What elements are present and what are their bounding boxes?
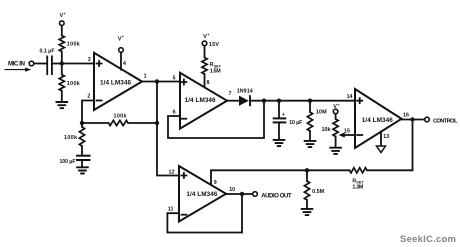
svg-text:2: 2 — [87, 94, 90, 100]
resistor R6 10M — [307, 112, 312, 131]
svg-text:+: + — [337, 102, 340, 107]
ground (pot) — [329, 148, 342, 154]
wire R7 to ground — [335, 137, 337, 148]
svg-text:100k: 100k — [64, 135, 77, 141]
wire R3 to C2 — [81, 146, 83, 155]
svg-text:MIC IN: MIC IN — [8, 61, 26, 68]
wire C3 to ground — [278, 123, 280, 139]
CONTROL terminal — [425, 117, 430, 122]
svg-text:8: 8 — [207, 80, 210, 86]
resistor R2 100k — [59, 75, 64, 91]
wire node B to R3 — [81, 123, 83, 127]
capacitor C2 100uF — [76, 155, 91, 157]
op-amp U2 1/4 LM346 — [180, 73, 227, 129]
wire node C down to U3 pin12 — [157, 82, 179, 176]
wire U3 output to AUDIO OUT — [226, 193, 253, 195]
wire R5 to U2 pin8 — [204, 74, 206, 88]
wire R2 to ground — [61, 91, 63, 102]
potentiometer R7 10k — [333, 119, 338, 137]
wire V+ to R1 — [61, 26, 63, 36]
wire node E to C3 — [278, 101, 280, 118]
wire C2 to ground — [81, 161, 83, 167]
node B junction (pin2 net) — [80, 121, 84, 125]
node D junction (after diode) — [262, 99, 266, 103]
ground (C3) — [273, 140, 286, 146]
svg-text:15V: 15V — [209, 42, 219, 48]
svg-text:13: 13 — [383, 134, 389, 140]
wire U4 output to CONTROL — [402, 119, 425, 121]
node E junction (C3 tap) — [277, 99, 281, 103]
svg-text:+: + — [122, 34, 125, 39]
svg-text:1/4 LM346: 1/4 LM346 — [185, 97, 216, 104]
resistor R4 100k feedback — [109, 120, 129, 125]
op-amp U3 1/4 LM346 — [179, 166, 226, 222]
svg-text:3: 3 — [88, 57, 91, 63]
wire U1 pin2 stub — [82, 101, 94, 124]
MIC IN terminal — [29, 61, 34, 66]
svg-text:1N914: 1N914 — [237, 88, 253, 94]
svg-text:12: 12 — [169, 170, 175, 176]
wire R1 to node A — [61, 52, 63, 64]
wire V+ to R7 — [335, 114, 337, 119]
svg-text:10 μF: 10 μF — [289, 120, 302, 126]
svg-text:14: 14 — [347, 94, 353, 100]
svg-text:0.1 μF: 0.1 μF — [40, 49, 55, 55]
svg-text:1/4 LM346: 1/4 LM346 — [186, 191, 217, 198]
wire terminal to C1 — [34, 63, 46, 65]
wire U3 feedback loop to pin11 — [167, 194, 242, 233]
node C junction (U1 out) — [155, 79, 159, 83]
wire U4 pin13 to ground arrow — [380, 132, 382, 146]
svg-text:6: 6 — [173, 109, 176, 115]
wire U2 output to D1 — [227, 100, 239, 102]
svg-text:11: 11 — [168, 206, 174, 212]
svg-text:100k: 100k — [114, 113, 127, 119]
node H junction (0.5M tap) — [305, 168, 309, 172]
wire 15V to R5 — [204, 46, 206, 58]
svg-text:7: 7 — [229, 91, 232, 97]
wire U2 pin6 feedback loop — [168, 101, 264, 138]
svg-text:100 μF: 100 μF — [60, 159, 76, 165]
wire node F to R6 — [309, 101, 311, 112]
op-amp U1 1/4 LM346 — [94, 53, 142, 110]
svg-text:10k: 10k — [322, 127, 331, 133]
node A junction — [60, 61, 64, 65]
AUDIO OUT terminal — [253, 192, 258, 197]
svg-text:1/4 LM346: 1/4 LM346 — [100, 79, 131, 86]
resistor R8 0.5M — [304, 181, 309, 200]
node F junction (R6 tap) — [308, 99, 312, 103]
svg-text:+: + — [63, 11, 66, 16]
wire C1 to node A — [53, 63, 94, 65]
pot wiper arrow to U4 pin15 — [344, 134, 355, 136]
svg-text:CONTROL: CONTROL — [433, 118, 458, 124]
MIC IN arrow — [5, 69, 27, 71]
op-amp U4 1/4 LM346 — [355, 89, 402, 148]
svg-text:0.5M: 0.5M — [312, 189, 325, 195]
svg-text:10M: 10M — [316, 109, 327, 115]
wire D1 to U4 pin14 — [250, 100, 355, 102]
wire U1 output to U2 pin5 — [142, 81, 180, 83]
svg-text:9: 9 — [214, 180, 217, 186]
svg-text:+: + — [282, 112, 285, 118]
svg-text:16: 16 — [403, 113, 409, 119]
wire node B to R4 — [82, 122, 109, 124]
wire node H to R8 — [306, 170, 308, 181]
resistor R3 100k — [79, 127, 84, 146]
svg-text:4: 4 — [123, 61, 126, 67]
diode D1 1N914 — [239, 96, 249, 106]
svg-text:SeekIC.com: SeekIC.com — [400, 234, 456, 245]
wire R9 to node H and U3 pin9 — [211, 170, 350, 184]
svg-text:1: 1 — [144, 73, 147, 79]
wire R4 to output node — [128, 122, 157, 124]
svg-text:5: 5 — [173, 75, 176, 81]
wire node G down to R9 — [367, 120, 413, 171]
junction at output riser — [155, 121, 159, 125]
resistor R1 100k — [59, 36, 64, 52]
wire node A to R2 — [61, 64, 63, 75]
resistor R9 RSET 1.3M — [350, 168, 368, 173]
ground (R8) — [301, 209, 314, 215]
svg-text:15: 15 — [344, 128, 350, 134]
wire R8 to ground — [306, 200, 308, 209]
node G junction (CONTROL) — [410, 117, 414, 121]
svg-text:100k: 100k — [67, 81, 80, 87]
svg-text:1.5M: 1.5M — [210, 68, 222, 74]
ground arrow (U4 pin13) — [377, 146, 386, 153]
ground (input divider) — [56, 102, 69, 108]
svg-text:1.3M: 1.3M — [352, 184, 364, 190]
ground (C2) — [76, 167, 89, 173]
svg-text:100k: 100k — [67, 42, 80, 48]
svg-text:AUDIO OUT: AUDIO OUT — [261, 194, 292, 200]
wire pin4 to V+ — [120, 52, 122, 69]
capacitor C1 0.1uF — [46, 56, 48, 76]
svg-text:10: 10 — [229, 187, 235, 193]
svg-text:+: + — [207, 32, 210, 37]
node I junction (audio out) — [240, 192, 244, 196]
ground (R6) — [304, 141, 317, 147]
wire R6 to ground — [309, 131, 311, 141]
svg-text:1/4 LM346: 1/4 LM346 — [362, 117, 393, 124]
resistor R5 RSET 1.5M — [202, 58, 207, 75]
